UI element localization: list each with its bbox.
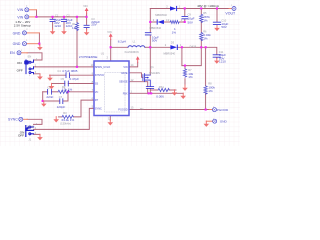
wire 10k branch <box>184 66 186 69</box>
svg-text:ON: ON <box>17 61 22 65</box>
capacitor C4 4.7uF INTVCC <box>66 73 70 78</box>
IC U1 LT3759EMSE box <box>94 61 129 116</box>
svg-text:EN: EN <box>28 55 32 59</box>
capacitor C5 0.47uF SS <box>65 81 69 86</box>
capacitor C9 10uF pump top <box>182 16 188 18</box>
wire sense resistor row <box>150 89 158 91</box>
wire output cap column <box>216 9 218 22</box>
port PGOOD <box>213 108 217 112</box>
svg-text:R3: R3 <box>63 111 67 115</box>
switch SW1 EN on-off <box>26 60 34 74</box>
svg-text:PG: PG <box>140 107 144 111</box>
ground symbols <box>50 29 56 35</box>
capacitor sense filter <box>146 87 153 89</box>
svg-text:VIN: VIN <box>17 8 23 12</box>
wire VC row <box>43 91 48 93</box>
svg-text:OFF: OFF <box>17 68 23 72</box>
wire 100k pullup column <box>205 47 207 86</box>
svg-text:48V @ >100mA: 48V @ >100mA <box>197 4 220 8</box>
wire UVLO resistor column <box>76 17 78 23</box>
svg-text:VC: VC <box>95 91 99 94</box>
wire RT row <box>59 116 63 118</box>
svg-text:GND: GND <box>13 42 21 46</box>
port GND3 <box>213 119 217 123</box>
svg-text:1M: 1M <box>72 26 77 30</box>
resistor R7 10k <box>183 69 186 77</box>
svg-text:MBR0540: MBR0540 <box>164 51 176 55</box>
svg-text:1%: 1% <box>172 30 177 34</box>
svg-text:2.5V Startup: 2.5V Startup <box>14 23 31 27</box>
svg-text:VOUT: VOUT <box>225 12 236 16</box>
svg-text:120pF: 120pF <box>57 105 66 109</box>
wire EN switch to IC <box>34 66 95 68</box>
wire INTVCC row <box>50 74 67 76</box>
svg-text:RS1: RS1 <box>159 85 165 89</box>
svg-text:LT3759EMSE: LT3759EMSE <box>79 55 98 59</box>
svg-text:VIN: VIN <box>107 30 111 34</box>
svg-text:SS: SS <box>95 83 99 86</box>
capacitor C3 220uF bulk <box>84 25 89 27</box>
svg-text:8.2µH: 8.2µH <box>118 39 126 43</box>
wire EN switch mid to ground <box>34 73 41 75</box>
capacitor C2 22uF input <box>61 19 66 21</box>
svg-text:1%: 1% <box>208 89 213 93</box>
resistor R4 1 ohm row22 <box>170 21 179 24</box>
capacitor C11 10uF mid rail <box>213 55 220 57</box>
capacitor C10 10uF output <box>213 22 220 24</box>
svg-text:RT: RT <box>95 99 99 102</box>
capacitor C8 10uF flying <box>145 33 151 35</box>
svg-text:1%: 1% <box>203 18 208 22</box>
svg-text:SHDN_UVLO: SHDN_UVLO <box>95 66 110 69</box>
svg-text:C5: C5 <box>61 77 65 81</box>
svg-text:SYNC: SYNC <box>95 107 102 110</box>
svg-text:OFF: OFF <box>18 134 24 138</box>
wire top rail row8 <box>150 8 170 10</box>
wire IC GND stub <box>109 116 111 121</box>
node VIN input rail wires <box>27 9 229 135</box>
wire capA top <box>184 9 186 17</box>
svg-text:1210: 1210 <box>54 24 61 28</box>
svg-text:1%: 1% <box>188 75 193 79</box>
wire gate row <box>129 73 143 78</box>
svg-text:25V: 25V <box>91 23 97 27</box>
svg-text:GATE: GATE <box>121 72 128 75</box>
port SYNC <box>19 117 23 121</box>
svg-text:C1: C1 <box>55 13 59 17</box>
svg-text:Q1: Q1 <box>150 65 154 69</box>
port stub wires <box>21 9 232 122</box>
wire row22 <box>150 21 157 23</box>
diode D1 MBR0540 top <box>170 6 176 10</box>
svg-text:MBR0540: MBR0540 <box>150 26 162 30</box>
svg-text:C4: C4 <box>57 69 61 73</box>
wire C1 column <box>52 17 54 19</box>
svg-text:U1: U1 <box>101 51 105 55</box>
svg-text:GND: GND <box>220 120 228 124</box>
wire SYNC port to switch <box>27 119 42 124</box>
wire SYNC switch to ground <box>34 133 41 135</box>
wire SW column <box>149 9 151 33</box>
capacitor C1 22uF input <box>50 19 55 21</box>
resistor R6 9.09k divider bottom <box>200 32 203 40</box>
wire C3 column <box>86 13 88 25</box>
capacitor C6 22nF VC <box>48 89 52 94</box>
capacitor C7 120pF VC <box>60 99 63 104</box>
wire SS row <box>52 83 65 85</box>
svg-text:FBX: FBX <box>123 92 128 95</box>
svg-text:EN: EN <box>10 51 15 55</box>
port VIN2 <box>25 15 29 19</box>
resistor R1 1M UVLO <box>76 23 79 31</box>
wire divider column top <box>200 9 202 15</box>
svg-text:63.4k 1%: 63.4k 1% <box>62 118 75 122</box>
wire midrail to sense network <box>181 47 183 65</box>
diode D3 MBR0540 mid rail <box>170 45 177 49</box>
svg-text:VIN: VIN <box>123 66 127 69</box>
svg-text:PGOOD: PGOOD <box>217 108 229 112</box>
svg-text:C2: C2 <box>66 13 70 17</box>
svg-text:SYNC: SYNC <box>8 118 18 122</box>
svg-text:(150kHz): (150kHz) <box>60 121 71 125</box>
power flag VIN over C3 <box>85 8 89 14</box>
svg-text:SYNC: SYNC <box>27 124 34 128</box>
port VIN1 <box>25 8 29 12</box>
junction dots <box>35 7 218 110</box>
resistor R8 100k PGOOD pullup <box>204 86 207 94</box>
svg-text:XAL5030: XAL5030 <box>124 50 135 54</box>
svg-text:4.7µF 0805: 4.7µF 0805 <box>62 69 78 73</box>
diode D2 MBR0540 row22 pointing left <box>158 20 164 24</box>
wire SYNC switch to IC <box>34 108 95 129</box>
resistor RS1 0.006 sense <box>158 88 169 91</box>
transistor Q1 SiS414DN <box>143 74 150 87</box>
svg-text:VIN: VIN <box>83 4 87 8</box>
svg-text:MBR0540: MBR0540 <box>155 13 167 17</box>
resistor R2 13k VC <box>58 90 69 93</box>
svg-text:C6: C6 <box>47 86 51 90</box>
resistor R3 63.4k RT <box>62 115 73 118</box>
wire GND2 port to arrow <box>38 44 40 45</box>
svg-text:INTVCC: INTVCC <box>95 74 105 77</box>
svg-text:22nF: 22nF <box>46 95 53 99</box>
power flag VIN over inductor <box>109 33 113 39</box>
svg-text:1210: 1210 <box>219 60 226 64</box>
wire mid rail from D3 <box>150 46 170 48</box>
svg-text:SENSE: SENSE <box>119 81 128 84</box>
svg-text:GND: GND <box>13 31 21 35</box>
wire VIN1 port to rail <box>36 10 38 17</box>
wire GND1 port down <box>38 33 40 44</box>
wire inductor row <box>111 46 128 48</box>
svg-text:SiS414DN: SiS414DN <box>149 73 160 75</box>
wire FET source column <box>149 89 151 94</box>
switch SW2 SYNC on-off <box>26 126 34 137</box>
svg-text:VIN: VIN <box>17 15 23 19</box>
svg-text:PGOOD: PGOOD <box>118 109 128 112</box>
wire VIN flag to inductor row and IC VIN top pin <box>110 40 112 62</box>
svg-text:DA18: DA18 <box>190 45 197 49</box>
svg-text:D3: D3 <box>171 41 175 45</box>
power flag VIN right of IC <box>136 56 140 62</box>
port GND2 <box>22 42 26 46</box>
port EN <box>17 51 21 55</box>
wire VC ground corner <box>42 92 44 101</box>
svg-text:0.006: 0.006 <box>156 95 164 99</box>
port VOUT <box>232 7 236 11</box>
svg-text:1%: 1% <box>203 36 208 40</box>
wire EN port to switch <box>27 53 42 60</box>
svg-text:C7: C7 <box>59 95 63 99</box>
inductor L1 8.2uH <box>128 46 145 48</box>
wire IC VIN pin to flag right <box>129 62 138 67</box>
svg-text:0.47µF: 0.47µF <box>70 77 80 81</box>
wire input rail <box>37 16 87 18</box>
port GND1 <box>22 31 26 35</box>
resistor R5 287k divider top <box>200 14 203 22</box>
wire 120pF row <box>43 100 60 102</box>
svg-text:13k 1%: 13k 1% <box>62 87 72 91</box>
wire sense pin row <box>129 82 148 87</box>
wire FBX row <box>129 92 183 94</box>
wire C2 column <box>63 17 65 19</box>
